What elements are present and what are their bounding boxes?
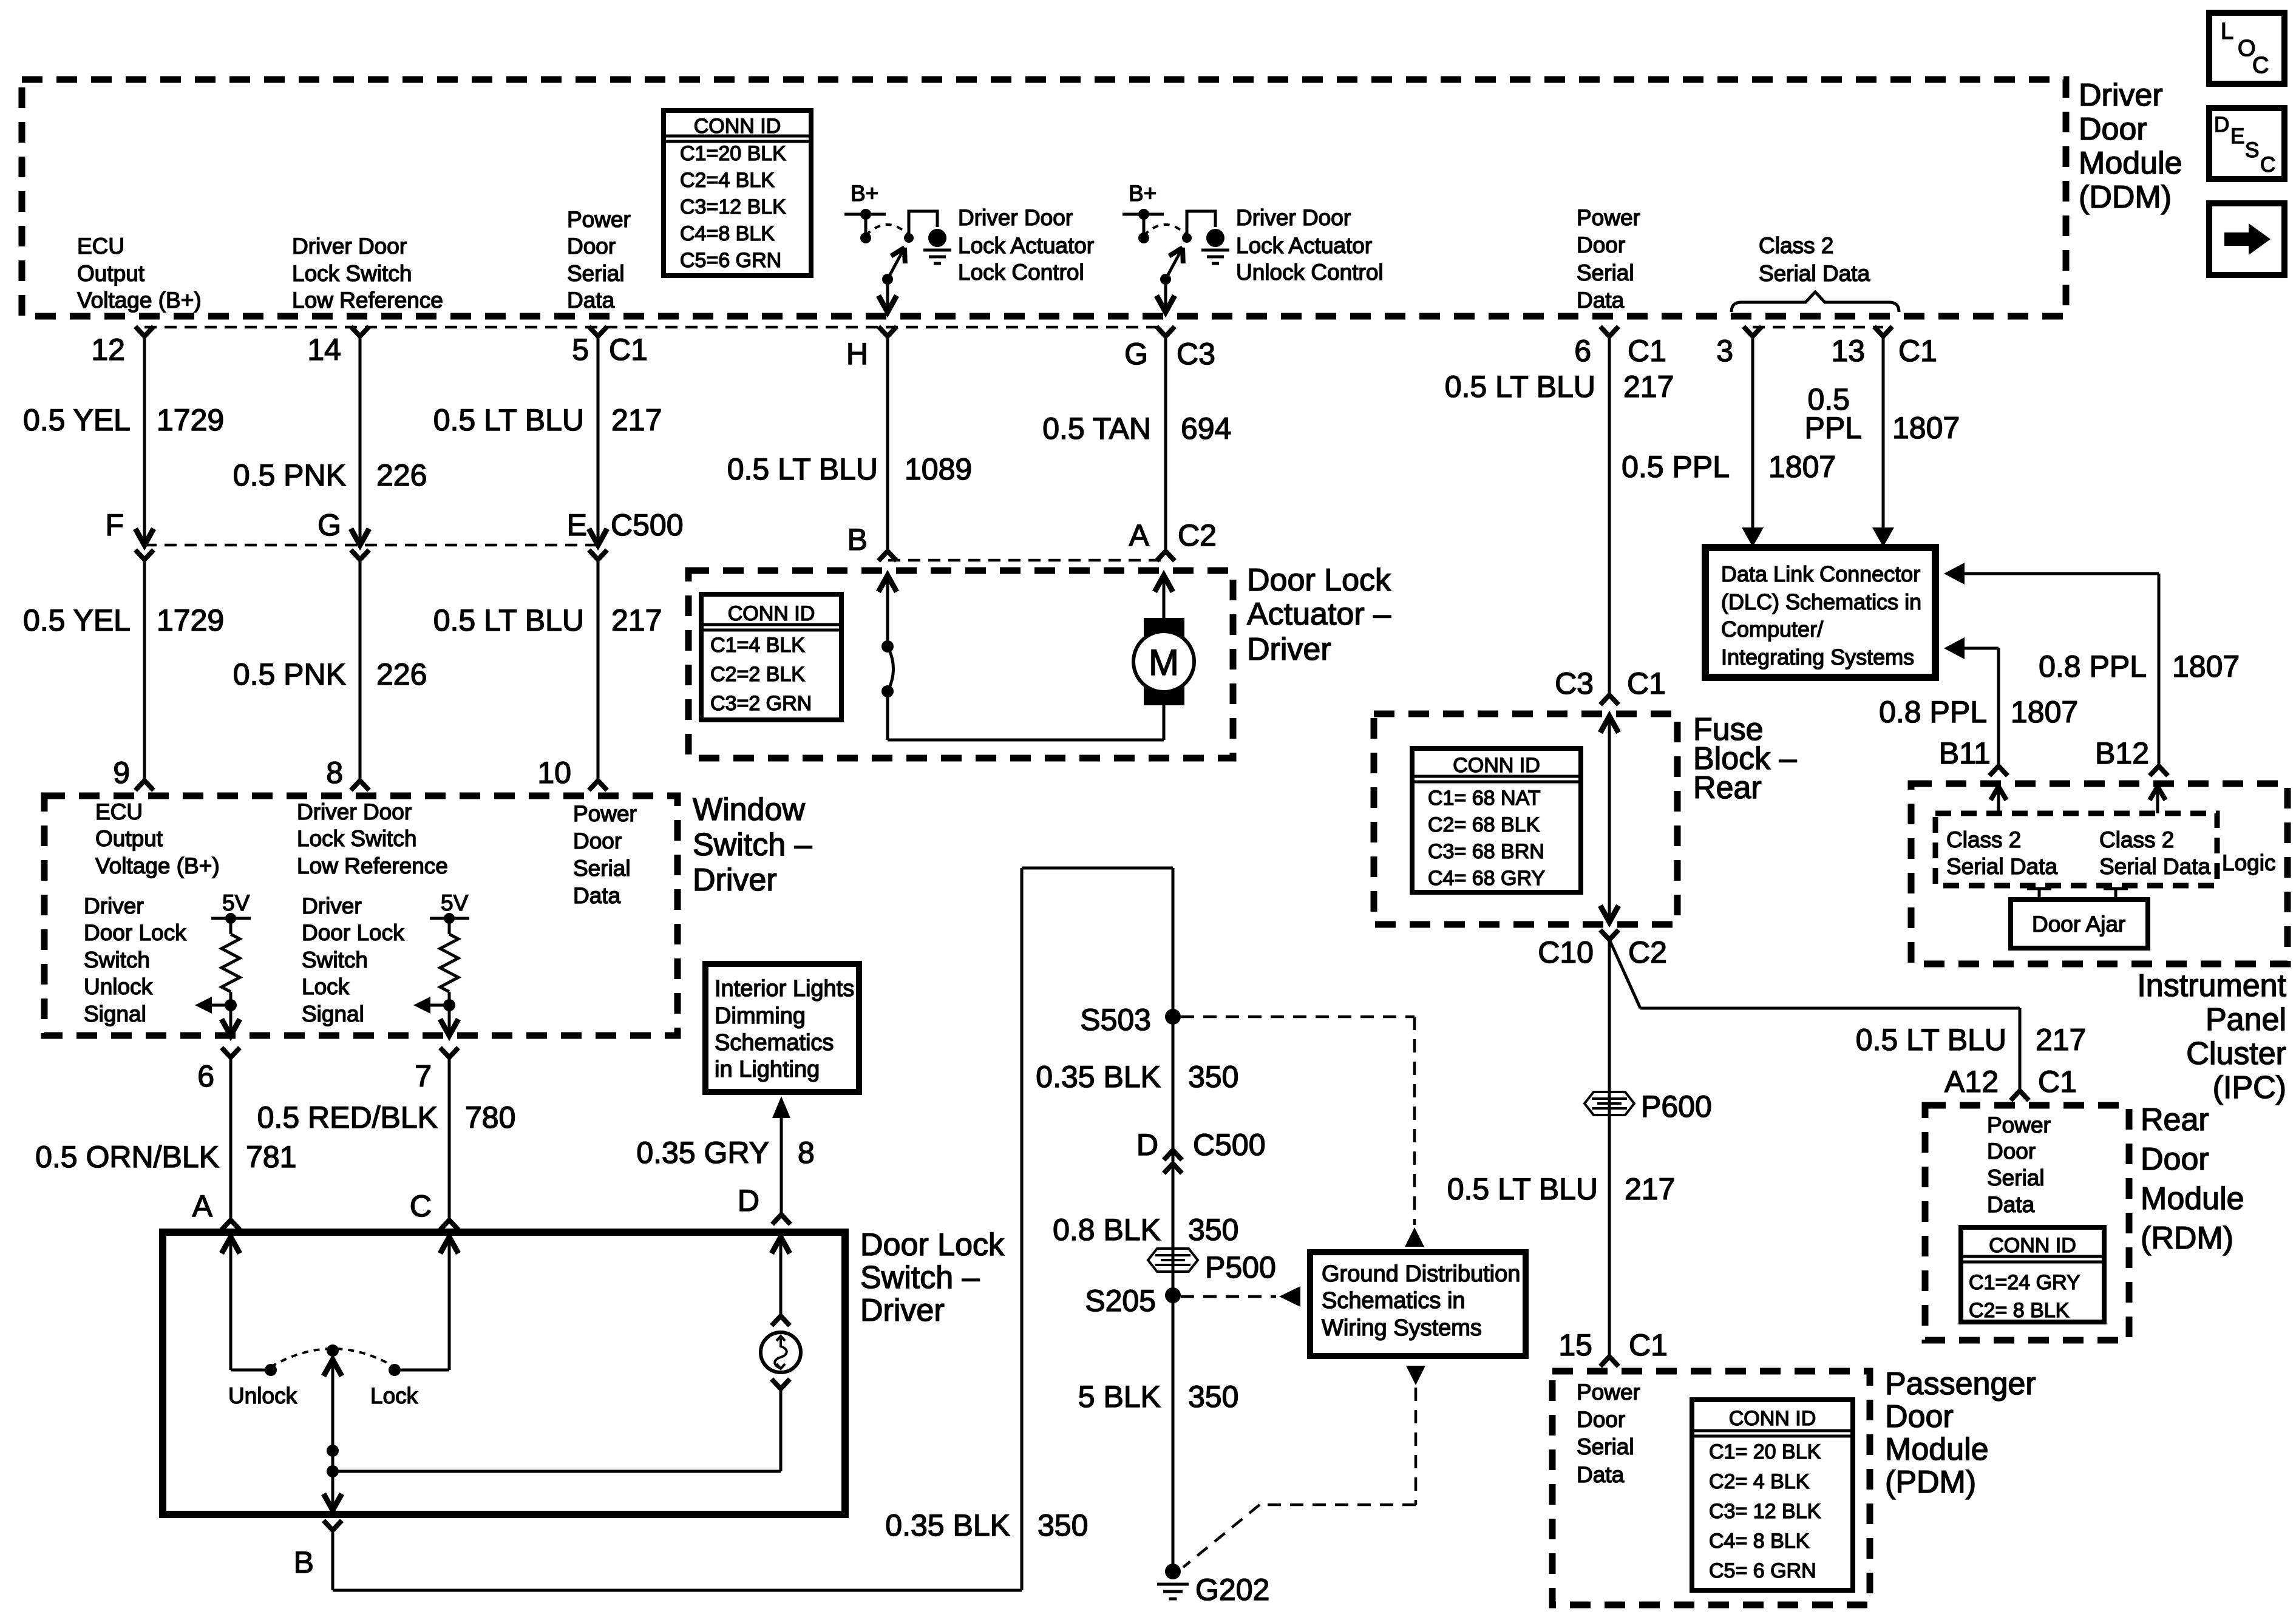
svg-text:Schematics: Schematics [715,1030,834,1056]
svg-text:Driver: Driver [2079,78,2163,113]
svg-text:B+: B+ [851,181,878,206]
svg-text:Voltage (B+): Voltage (B+) [77,288,202,313]
svg-text:Serial Data: Serial Data [2099,854,2210,879]
svg-text:B+: B+ [1129,181,1156,206]
svg-text:G: G [1124,337,1148,371]
svg-text:(RDM): (RDM) [2141,1221,2233,1256]
svg-text:CONN ID: CONN ID [1453,754,1540,777]
svg-text:Door: Door [1885,1399,1954,1434]
svg-text:CONN ID: CONN ID [1989,1234,2076,1257]
svg-text:C2: C2 [1178,518,1217,552]
svg-text:Serial Data: Serial Data [1759,261,1870,286]
svg-text:E: E [567,508,587,542]
svg-text:Unlock: Unlock [84,974,153,999]
svg-text:Driver Door: Driver Door [1236,205,1351,230]
svg-text:D: D [1136,1128,1158,1162]
svg-text:Unlock: Unlock [228,1383,297,1408]
svg-text:C4= 8 BLK: C4= 8 BLK [1709,1530,1810,1553]
svg-text:5: 5 [572,333,589,367]
svg-text:Lock Actuator: Lock Actuator [958,233,1094,258]
svg-text:Module: Module [2141,1181,2244,1216]
svg-text:F: F [105,508,124,542]
svg-text:3: 3 [1716,334,1733,368]
svg-text:CONN ID: CONN ID [728,602,815,625]
svg-text:1729: 1729 [157,603,224,637]
svg-text:780: 780 [465,1100,515,1134]
svg-text:C1= 68 NAT: C1= 68 NAT [1428,787,1541,810]
svg-text:Module: Module [1885,1432,1989,1467]
svg-text:Dimming: Dimming [715,1003,806,1029]
svg-text:Schematics in: Schematics in [1322,1288,1466,1314]
svg-text:C3: C3 [1555,666,1594,700]
svg-text:C2=2 BLK: C2=2 BLK [710,663,805,686]
svg-text:C2: C2 [1628,935,1667,969]
svg-text:Low Reference: Low Reference [292,288,443,313]
svg-text:C5= 6 GRN: C5= 6 GRN [1709,1559,1816,1582]
svg-text:(IPC): (IPC) [2213,1070,2286,1105]
svg-text:0.35 BLK: 0.35 BLK [885,1508,1010,1542]
svg-text:6: 6 [197,1059,214,1093]
svg-text:CONN ID: CONN ID [694,115,781,138]
svg-text:Door Lock: Door Lock [302,920,404,945]
svg-text:B11: B11 [1939,736,1991,770]
svg-text:P600: P600 [1641,1090,1712,1124]
svg-text:Door: Door [1987,1139,2036,1164]
svg-text:Voltage (B+): Voltage (B+) [95,853,220,878]
svg-text:S503: S503 [1080,1003,1151,1037]
svg-text:Switch –: Switch – [860,1260,980,1295]
svg-text:0.5 ORN/BLK: 0.5 ORN/BLK [35,1140,219,1174]
svg-text:Serial: Serial [1577,260,1634,285]
svg-text:S: S [2245,138,2259,162]
svg-text:217: 217 [611,403,662,437]
svg-text:A: A [192,1189,213,1223]
svg-text:A12: A12 [1944,1065,1999,1099]
svg-text:Instrument: Instrument [2137,968,2286,1003]
svg-text:7: 7 [415,1059,432,1093]
svg-text:C4=8 BLK: C4=8 BLK [680,222,775,245]
svg-text:Serial Data: Serial Data [1946,854,2057,879]
svg-text:0.5 PNK: 0.5 PNK [233,657,346,691]
svg-text:Switch: Switch [84,947,150,972]
svg-text:Power: Power [567,207,631,232]
svg-text:Lock: Lock [302,974,350,999]
svg-text:E: E [2230,124,2244,148]
svg-text:C1: C1 [609,333,648,367]
svg-text:B12: B12 [2095,736,2149,770]
svg-text:0.35 GRY: 0.35 GRY [636,1136,769,1170]
svg-text:C1=24 GRY: C1=24 GRY [1969,1271,2080,1294]
svg-text:Driver Door: Driver Door [292,234,407,259]
svg-text:15: 15 [1558,1328,1592,1362]
svg-text:Switch –: Switch – [693,827,812,863]
svg-text:5V: 5V [222,890,250,915]
svg-text:Module: Module [2079,146,2182,181]
svg-text:Logic: Logic [2222,850,2275,875]
svg-text:Serial: Serial [573,856,631,881]
svg-text:1807: 1807 [1768,450,1836,484]
svg-text:Driver: Driver [1247,632,1331,667]
svg-text:1807: 1807 [2172,649,2240,683]
svg-text:350: 350 [1038,1508,1088,1542]
svg-text:0.5 PPL: 0.5 PPL [1622,450,1730,484]
svg-text:Driver: Driver [302,893,362,918]
svg-text:Door Ajar: Door Ajar [2032,912,2125,937]
svg-text:0.5 TAN: 0.5 TAN [1042,412,1151,446]
svg-text:12: 12 [91,333,125,367]
svg-text:694: 694 [1181,412,1231,446]
svg-text:C1: C1 [1629,1328,1668,1362]
svg-text:Door: Door [1577,232,1625,257]
svg-text:C3: C3 [1177,337,1215,371]
svg-text:B: B [294,1545,314,1579]
svg-text:Panel: Panel [2206,1002,2286,1037]
svg-text:D: D [738,1184,759,1218]
svg-text:C2= 68 BLK: C2= 68 BLK [1428,813,1540,836]
svg-text:Data Link Connector: Data Link Connector [1721,561,1920,586]
svg-text:C1: C1 [2038,1065,2077,1099]
svg-text:Lock Switch: Lock Switch [297,826,416,851]
svg-text:5 BLK: 5 BLK [1078,1380,1161,1414]
svg-text:Data: Data [1577,1462,1625,1487]
svg-text:C: C [410,1189,432,1223]
svg-text:0.5 YEL: 0.5 YEL [23,603,131,637]
svg-text:Driver: Driver [693,863,777,898]
svg-text:B: B [847,523,868,557]
svg-text:1089: 1089 [905,452,972,486]
svg-text:Integrating Systems: Integrating Systems [1721,645,1914,670]
svg-text:Lock Switch: Lock Switch [292,261,412,286]
svg-text:Door: Door [2141,1142,2209,1177]
svg-text:350: 350 [1188,1380,1238,1414]
svg-text:Lock Actuator: Lock Actuator [1236,233,1372,258]
svg-text:in Lighting: in Lighting [715,1057,820,1082]
svg-text:C4= 68 GRY: C4= 68 GRY [1428,867,1545,890]
svg-text:1807: 1807 [1892,411,1960,445]
svg-text:0.5 LT BLU: 0.5 LT BLU [727,452,878,486]
svg-text:Driver Door: Driver Door [958,205,1073,230]
svg-text:Wiring Systems: Wiring Systems [1322,1315,1482,1341]
svg-text:Door: Door [1577,1407,1625,1432]
svg-text:Interior Lights: Interior Lights [715,976,854,1002]
svg-text:Data: Data [573,883,621,908]
svg-text:Rear: Rear [2141,1102,2209,1137]
svg-text:C2= 4 BLK: C2= 4 BLK [1709,1470,1810,1493]
svg-text:217: 217 [1625,1172,1675,1206]
svg-text:C500: C500 [1193,1128,1266,1162]
svg-text:C3= 12 BLK: C3= 12 BLK [1709,1500,1821,1523]
svg-text:Door Lock: Door Lock [84,920,186,945]
svg-text:(DDM): (DDM) [2079,180,2172,215]
svg-text:10: 10 [537,756,571,790]
svg-text:781: 781 [246,1140,296,1174]
svg-text:Output: Output [95,826,163,851]
svg-text:Switch: Switch [302,947,368,972]
svg-text:0.5 LT BLU: 0.5 LT BLU [1447,1172,1598,1206]
svg-text:C2=4 BLK: C2=4 BLK [680,169,775,192]
svg-text:P500: P500 [1205,1250,1276,1284]
svg-text:C10: C10 [1538,935,1594,969]
svg-text:0.5 PNK: 0.5 PNK [233,458,346,492]
svg-text:Lock Control: Lock Control [958,260,1084,285]
svg-text:CONN ID: CONN ID [1729,1407,1816,1430]
svg-text:C3=12 BLK: C3=12 BLK [680,195,786,219]
svg-text:C: C [2260,153,2275,177]
svg-text:Unlock Control: Unlock Control [1236,260,1384,285]
svg-text:D: D [2214,113,2229,137]
svg-text:C2= 8 BLK: C2= 8 BLK [1969,1299,2070,1322]
svg-text:1807: 1807 [2011,695,2078,729]
svg-text:Data: Data [1987,1192,2035,1217]
svg-text:Serial: Serial [1577,1434,1634,1459]
svg-text:0.35 BLK: 0.35 BLK [1036,1060,1161,1094]
svg-text:8: 8 [326,756,343,790]
svg-text:226: 226 [376,657,427,691]
svg-text:C3= 68 BRN: C3= 68 BRN [1428,840,1544,863]
svg-text:0.5 LT BLU: 0.5 LT BLU [1445,370,1595,404]
svg-text:(PDM): (PDM) [1885,1465,1976,1500]
svg-text:Signal: Signal [84,1002,146,1026]
svg-text:M: M [1149,642,1179,683]
svg-text:A: A [1129,518,1150,552]
svg-text:Door: Door [573,829,622,853]
svg-text:Door Lock: Door Lock [1247,563,1391,598]
svg-text:0.5 YEL: 0.5 YEL [23,403,131,437]
svg-text:C: C [2252,53,2269,78]
svg-text:0.5 LT BLU: 0.5 LT BLU [433,603,584,637]
svg-text:Power: Power [1577,1380,1640,1405]
svg-text:8: 8 [798,1136,815,1170]
svg-text:Driver: Driver [860,1293,945,1328]
svg-text:0.8 BLK: 0.8 BLK [1053,1213,1161,1247]
svg-text:13: 13 [1831,334,1865,368]
svg-text:0.5 LT BLU: 0.5 LT BLU [433,403,584,437]
svg-text:226: 226 [376,458,427,492]
svg-text:Door: Door [2079,112,2147,147]
svg-text:0.8 PPL: 0.8 PPL [2039,649,2147,683]
svg-text:S205: S205 [1085,1284,1156,1318]
svg-text:G202: G202 [1195,1573,1269,1607]
svg-text:Passenger: Passenger [1885,1366,2036,1402]
svg-text:C1=20 BLK: C1=20 BLK [680,142,786,165]
svg-text:C5=6 GRN: C5=6 GRN [680,249,781,272]
svg-text:ECU: ECU [77,234,124,259]
svg-text:217: 217 [1623,370,1674,404]
svg-text:C1=4 BLK: C1=4 BLK [710,634,805,657]
svg-text:0.5 LT BLU: 0.5 LT BLU [1856,1023,2006,1057]
svg-text:G: G [318,508,341,542]
svg-text:0.8 PPL: 0.8 PPL [1879,695,1987,729]
svg-text:Door: Door [567,234,616,259]
svg-text:Output: Output [77,261,145,286]
svg-text:Computer/: Computer/ [1721,617,1823,642]
svg-text:Class 2: Class 2 [2099,827,2174,852]
svg-text:Signal: Signal [302,1002,364,1026]
svg-text:C1: C1 [1627,666,1666,700]
svg-text:C1: C1 [1628,334,1666,368]
svg-text:Power: Power [573,801,637,826]
svg-text:217: 217 [2036,1023,2086,1057]
svg-text:L: L [2221,19,2233,44]
svg-text:Power: Power [1577,205,1640,230]
svg-text:PPL: PPL [1804,411,1862,445]
svg-text:Door Lock: Door Lock [860,1227,1005,1263]
svg-text:217: 217 [611,603,662,637]
svg-text:Cluster: Cluster [2186,1036,2286,1071]
svg-text:Data: Data [1577,288,1625,313]
svg-text:14: 14 [307,333,341,367]
svg-text:Serial: Serial [1987,1165,2045,1190]
svg-text:350: 350 [1188,1213,1238,1247]
svg-text:Low Reference: Low Reference [297,853,448,878]
svg-text:0.5 RED/BLK: 0.5 RED/BLK [257,1100,438,1134]
svg-text:350: 350 [1188,1060,1238,1094]
svg-text:Ground Distribution: Ground Distribution [1322,1261,1520,1287]
svg-text:Class 2: Class 2 [1759,233,1833,258]
svg-text:Driver Door: Driver Door [297,799,412,824]
svg-text:C3=2 GRN: C3=2 GRN [710,692,812,715]
svg-text:Class 2: Class 2 [1946,827,2021,852]
svg-text:Serial: Serial [567,261,625,286]
svg-text:6: 6 [1574,334,1591,368]
svg-text:Actuator –: Actuator – [1247,597,1391,632]
svg-text:Data: Data [567,288,615,313]
svg-text:C500: C500 [611,508,684,542]
svg-text:C1: C1 [1898,334,1937,368]
svg-text:5V: 5V [441,890,469,915]
svg-text:Driver: Driver [84,893,144,918]
svg-text:Lock: Lock [370,1383,418,1408]
svg-text:Rear: Rear [1693,770,1762,805]
svg-text:(DLC) Schematics in: (DLC) Schematics in [1721,589,1921,614]
svg-text:9: 9 [113,756,130,790]
svg-text:C1= 20 BLK: C1= 20 BLK [1709,1440,1821,1463]
svg-text:Power: Power [1987,1113,2051,1137]
svg-text:Window: Window [693,792,805,827]
svg-text:H: H [846,337,868,371]
svg-text:ECU: ECU [95,799,143,824]
svg-text:1729: 1729 [157,403,224,437]
